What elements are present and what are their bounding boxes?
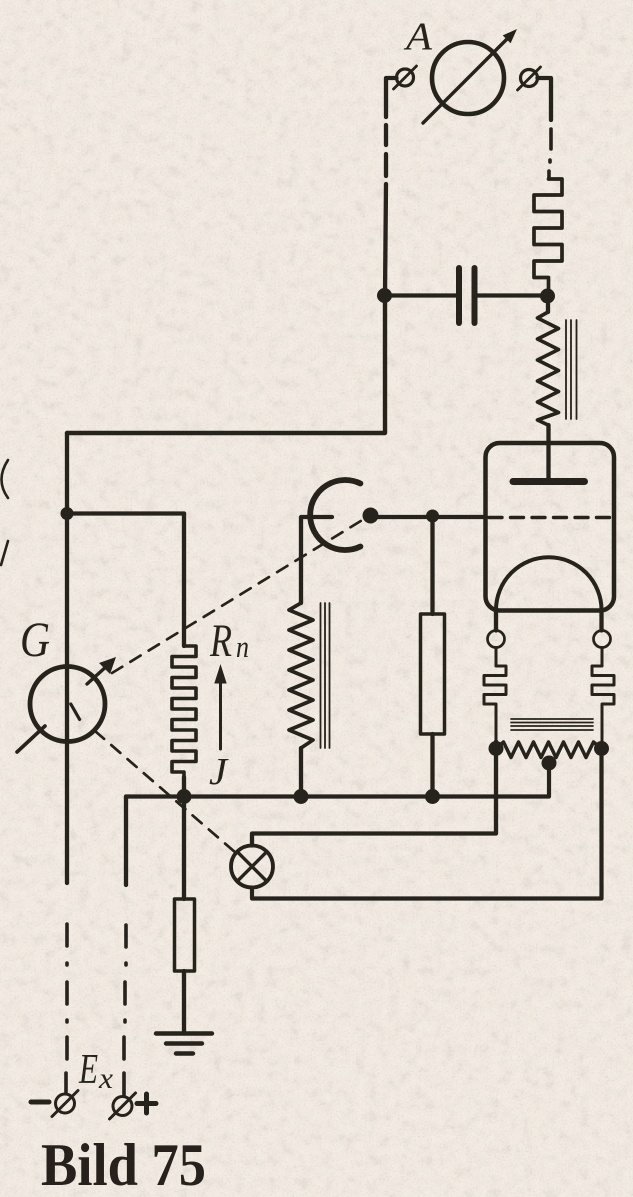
capacitor plate left [456, 268, 462, 323]
wire tap to rail [126, 763, 549, 797]
resistor top-right meander [534, 179, 562, 290]
minus terminal circle [56, 1094, 75, 1113]
terminal left of A [397, 69, 414, 86]
ground branch resistor body [175, 899, 195, 971]
tube right leg upper [599, 611, 603, 631]
tube anode lead [546, 443, 550, 479]
dash-dot break to plus terminal [124, 925, 126, 1096]
svg-text:R: R [209, 615, 232, 667]
dash-dot break to minus terminal [66, 924, 67, 1093]
tube envelope [486, 443, 615, 611]
junction node left [61, 507, 74, 520]
tube anode plate [513, 478, 585, 485]
svg-text:A: A [403, 15, 432, 58]
wire down to Rn [182, 514, 186, 647]
dashed link G to selector contact [112, 519, 364, 673]
slash on right terminal [518, 67, 541, 90]
junction node capacitor-right [540, 289, 555, 304]
tube left lead squiggle [484, 648, 506, 742]
filament zigzag resistor [496, 742, 602, 758]
galvanometer needle arrowhead [99, 657, 116, 674]
resistor zigzag anode [538, 312, 559, 425]
wire left vertical to junction [385, 184, 386, 295]
svg-text:J: J [209, 751, 229, 793]
stray mark left margin slash [1, 541, 8, 565]
current arrow J line [219, 682, 222, 749]
dashed break left [384, 125, 388, 176]
minus sign [31, 1100, 49, 1105]
wire divider resistor to rail [430, 734, 434, 797]
filament center tap node [542, 756, 557, 771]
wire through G meter [65, 513, 69, 883]
wire rail to ground resistor [182, 797, 186, 900]
wire resistor to ground [182, 971, 186, 1031]
slash on plus terminal [110, 1093, 136, 1119]
capacitor left wire [385, 293, 457, 297]
capacitor right wire [478, 293, 548, 297]
tube right lead squiggle [592, 648, 614, 742]
galvanometer G circle [30, 667, 105, 742]
junction node above divider resistor [426, 510, 439, 523]
svg-text:E: E [78, 1047, 98, 1093]
divider resistor body [421, 614, 445, 734]
galvanometer needle top [87, 665, 108, 684]
heater hatch lines [511, 719, 593, 730]
hatch marks center resistor [321, 603, 330, 748]
lamp circle [231, 846, 273, 888]
wire junction down to corner [67, 295, 385, 433]
junction node rail Rn [177, 789, 192, 804]
svg-text:Bild 75: Bild 75 [41, 1132, 206, 1197]
tube left pinch circle [488, 631, 505, 648]
dash-dot break right [549, 129, 551, 179]
plus sign [137, 1094, 156, 1113]
resistor Rn meander [172, 646, 196, 777]
junction node rail zigzag [294, 789, 309, 804]
svg-text:n: n [236, 629, 249, 664]
wire A left [386, 78, 397, 117]
tube grid dashed [489, 516, 610, 519]
galvanometer inner stub [71, 704, 80, 719]
wire rail corner to plus terminal [124, 797, 128, 886]
resistor zigzag center [289, 603, 313, 748]
tube right pinch circle [594, 631, 611, 648]
wire left rail down [65, 433, 69, 513]
filament node right [594, 741, 609, 756]
wire node to divider resistor [430, 516, 434, 614]
wire A right [538, 78, 552, 120]
terminal right of A [521, 70, 538, 87]
wire cap node down [546, 296, 550, 312]
wire Rn to rail [182, 777, 186, 797]
svg-text:G: G [20, 611, 50, 667]
slash on left terminal [394, 66, 417, 89]
galvanometer needle tail [17, 726, 45, 752]
slash on minus terminal [52, 1091, 78, 1117]
selector contact node [363, 508, 379, 524]
stray mark left margin arc [2, 460, 9, 498]
tube cathode dome [496, 557, 602, 610]
ground symbol [156, 1034, 212, 1054]
tube left leg to lamp wire [252, 742, 496, 846]
ammeter A circle [432, 42, 504, 114]
wire resistor to tube [546, 425, 550, 443]
wire contact to tube grid [371, 515, 487, 519]
current arrow J head [214, 664, 226, 684]
junction node capacitor-left [377, 288, 392, 303]
wire zigzag branch to wiper [301, 517, 332, 603]
selector wiper arc [310, 480, 360, 550]
tube left leg upper [494, 611, 498, 631]
ammeter A needle [423, 37, 509, 123]
capacitor plate right [472, 268, 478, 323]
lamp bottom wire to tube right leg [252, 749, 602, 899]
plus terminal circle [113, 1097, 132, 1116]
hatch marks anode resistor [566, 320, 577, 419]
lamp cross [237, 852, 267, 882]
dashed link G to lamp [95, 731, 236, 853]
wire zigzag to rail [299, 748, 303, 797]
ammeter A needle arrowhead [503, 29, 517, 43]
svg-text:x: x [98, 1062, 114, 1095]
wire rail top horizontal to Rn branch [67, 511, 184, 515]
junction node rail divider [425, 789, 440, 804]
filament node left [489, 741, 504, 756]
